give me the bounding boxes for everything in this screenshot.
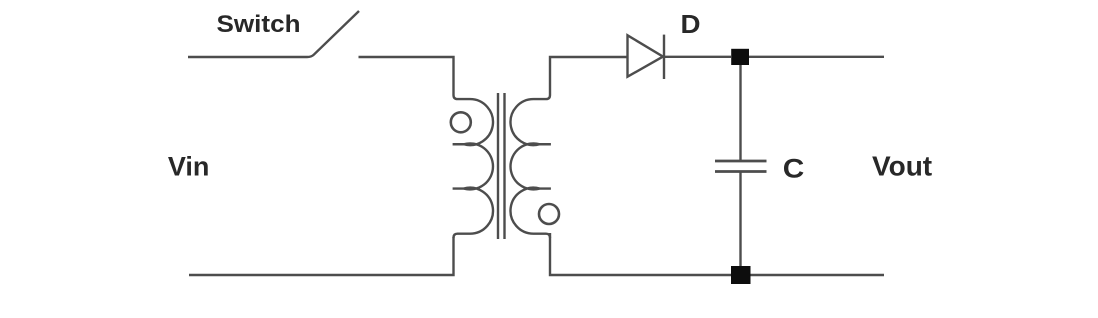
svg-text:D: D xyxy=(681,9,701,39)
svg-text:C: C xyxy=(783,153,805,183)
node: top junction (diode/cap/Vout) xyxy=(731,49,749,65)
wire: top node down to capacitor top plate xyxy=(739,57,741,161)
wire: switch throw to transformer primary top xyxy=(359,57,454,95)
wire: primary bottom to Vin bottom lead xyxy=(189,237,454,275)
wire: secondary top to diode anode xyxy=(550,57,628,95)
capacitor C top plate xyxy=(715,160,767,163)
diode D triangle xyxy=(628,35,664,76)
transformer T1 primary phase dot xyxy=(451,112,471,132)
svg-text:Switch: Switch xyxy=(217,11,301,38)
transformer T1 core line left xyxy=(497,93,499,239)
svg-text:Vout: Vout xyxy=(872,151,932,182)
diode D cathode bar xyxy=(663,35,665,79)
transformer T1 primary winding xyxy=(453,95,493,238)
wire: Vin top lead to switch pole xyxy=(188,56,307,58)
wire: diode cathode to top node xyxy=(664,56,731,58)
wire: capacitor bottom plate to bottom node xyxy=(739,172,741,275)
transformer T1 core line right xyxy=(503,93,505,239)
capacitor C bottom plate xyxy=(715,170,767,173)
transformer T1 secondary phase dot xyxy=(539,204,559,224)
svg-text:Vin: Vin xyxy=(168,152,210,182)
node: bottom junction (cap/bottom rail) xyxy=(731,266,751,284)
wire: secondary bottom to bottom rail xyxy=(550,233,884,275)
switch S1 (open blade) xyxy=(307,11,359,57)
transformer T1 secondary winding xyxy=(511,95,551,238)
wire: top node to Vout top lead xyxy=(749,56,884,58)
